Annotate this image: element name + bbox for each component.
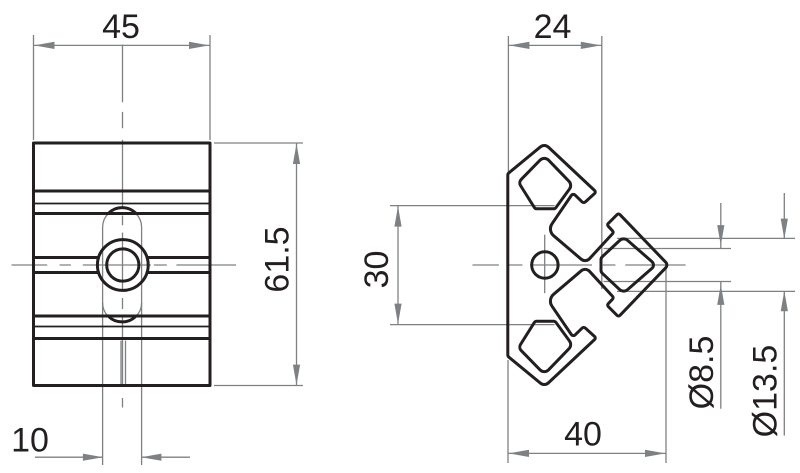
bottom cavity bbox=[520, 321, 571, 371]
arrow 61.5 bottom bbox=[293, 365, 300, 385]
arrow 45 left bbox=[34, 42, 54, 49]
groove line bottom K bbox=[34, 315, 211, 318]
centerline horizontal bbox=[473, 264, 686, 266]
extension lines 61.5 dim bbox=[214, 143, 303, 386]
dimension line dia 8.5 bbox=[720, 203, 722, 409]
top cavity bbox=[520, 158, 571, 208]
dimension line dia 13.5 bbox=[783, 193, 785, 436]
slot arc top (thick) bbox=[108, 208, 136, 214]
small vertical thin lines bottom band bbox=[121, 341, 126, 385]
extension lines dia 13.5 bbox=[617, 238, 795, 291]
profile outer contour bbox=[508, 145, 667, 384]
centerline horizontal bbox=[12, 264, 237, 266]
right cavity bbox=[601, 239, 653, 291]
dimension line 10 bbox=[35, 456, 190, 458]
extension lines 45 dim bbox=[34, 35, 211, 140]
arrow 10 right bbox=[141, 454, 161, 461]
svg-text:61.5: 61.5 bbox=[259, 226, 297, 292]
groove line top A bbox=[34, 190, 211, 193]
bore circle bbox=[107, 249, 139, 281]
groove line top V (thin) bbox=[34, 203, 211, 205]
svg-text:24: 24 bbox=[534, 8, 572, 46]
arrow 24 right bbox=[581, 42, 601, 49]
extension lines 10 dim bbox=[103, 303, 142, 465]
extension lines 40 dim bbox=[508, 267, 666, 463]
arrow 45 right bbox=[189, 42, 209, 49]
centerline vertical bbox=[122, 45, 124, 408]
arrow dia13.5 bottom bbox=[781, 291, 788, 311]
slot arc bottom (thick) bbox=[108, 316, 136, 322]
extension lines 24 dim bbox=[508, 36, 601, 289]
svg-text:10: 10 bbox=[11, 422, 49, 460]
core hole bbox=[532, 252, 558, 278]
arrow 40 left bbox=[509, 450, 529, 457]
groove line bottom A bbox=[34, 337, 211, 340]
dimension line 30 bbox=[397, 206, 399, 325]
slot obround (thin) bbox=[103, 208, 142, 322]
arrow dia8.5 bottom bbox=[717, 285, 724, 305]
dimension line 24 bbox=[508, 44, 601, 46]
extension lines dia 8.5 bbox=[604, 249, 732, 282]
dimension line 61.5 bbox=[296, 143, 298, 386]
dimension line 45 bbox=[34, 44, 211, 46]
svg-text:30: 30 bbox=[358, 251, 396, 289]
extension lines 30 dim bbox=[390, 206, 555, 325]
arrow 30 top bbox=[394, 206, 401, 226]
middle line upper bbox=[34, 256, 211, 259]
groove line top K bbox=[34, 212, 211, 215]
svg-text:Ø8.5: Ø8.5 bbox=[683, 336, 721, 410]
arrow dia8.5 top bbox=[717, 225, 724, 245]
middle line lower bbox=[34, 271, 211, 274]
groove line bottom V (thin) bbox=[34, 326, 211, 328]
counterbore circle bbox=[97, 240, 148, 291]
arrow 10 left bbox=[83, 454, 103, 461]
centerline vertical through hole bbox=[544, 235, 546, 294]
svg-text:45: 45 bbox=[102, 8, 140, 46]
plate rectangle bbox=[34, 143, 211, 386]
arrow 61.5 top bbox=[293, 144, 300, 164]
dimension line 40 bbox=[508, 452, 666, 454]
arrow 24 left bbox=[509, 42, 529, 49]
svg-text:Ø13.5: Ø13.5 bbox=[747, 345, 785, 438]
arrow 40 right bbox=[645, 450, 665, 457]
svg-text:40: 40 bbox=[564, 416, 602, 454]
arrow dia13.5 top bbox=[781, 219, 788, 239]
arrow 30 bottom bbox=[394, 304, 401, 324]
